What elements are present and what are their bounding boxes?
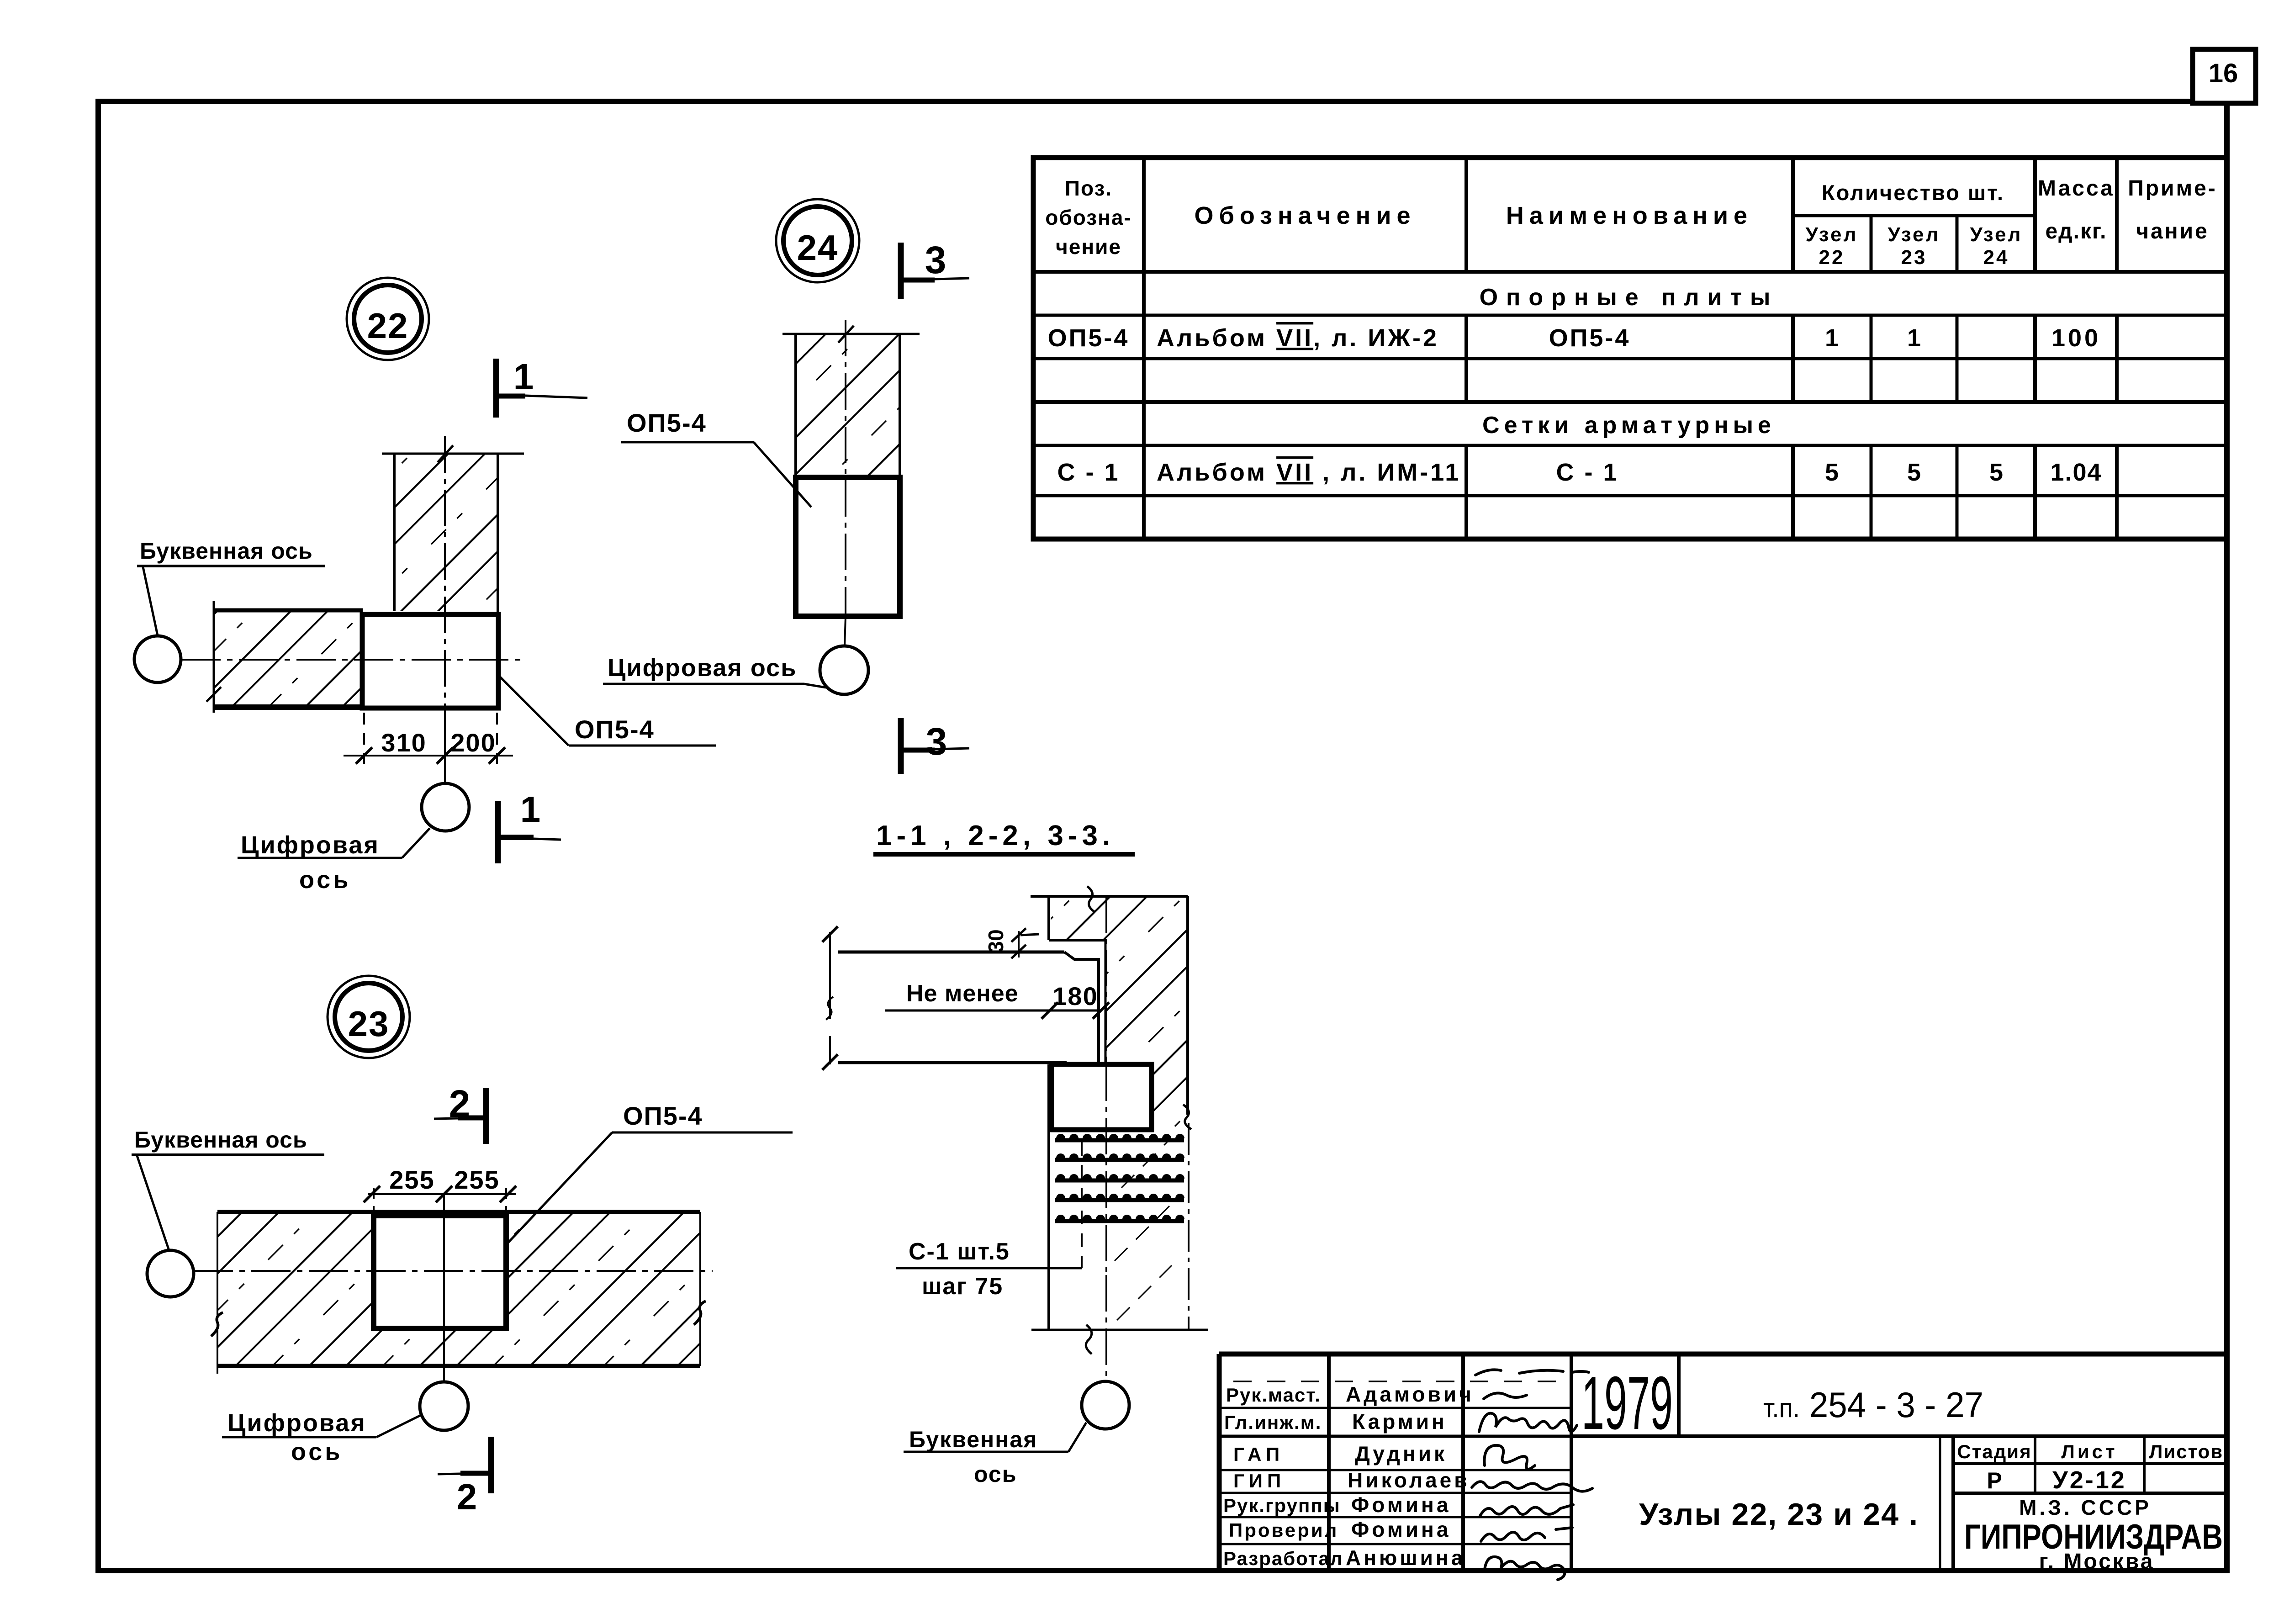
row С-1 (1057, 459, 2102, 486)
svg-text:Не менее: Не менее (906, 980, 1019, 1007)
svg-text:16: 16 (2209, 58, 2238, 88)
letter axis line (dash-dot) (181, 659, 525, 661)
svg-text:Обозначение: Обозначение (1194, 202, 1416, 229)
svg-text:1979: 1979 (1581, 1361, 1673, 1445)
svg-text:2: 2 (457, 1476, 477, 1517)
svg-text:Буквенная: Буквенная (909, 1427, 1037, 1452)
svg-text:Сетки арматурные: Сетки арматурные (1482, 412, 1776, 439)
svg-text:Опорные плиты: Опорные плиты (1480, 284, 1779, 311)
svg-text:Рук.маст.: Рук.маст. (1226, 1384, 1321, 1406)
digit axis circle node 24 (820, 646, 868, 694)
dimension 310 / 200 node 22 (344, 713, 513, 764)
mesh extent line (dashed) (1081, 1142, 1083, 1268)
personnel names (1346, 1382, 1474, 1570)
section mark 2 (bottom) (438, 1437, 491, 1517)
label Буквенная ось (section) (904, 1423, 1086, 1487)
svg-text:ось: ось (974, 1461, 1017, 1487)
svg-text:Узел: Узел (1888, 223, 1940, 246)
svg-text:180: 180 (1052, 982, 1098, 1010)
svg-text:М.З. СССР: М.З. СССР (2019, 1496, 2152, 1519)
label ОП5-4 with leader node 22 (498, 675, 716, 746)
svg-text:Николаев: Николаев (1348, 1468, 1470, 1492)
svg-text:310: 310 (381, 728, 426, 757)
section mark 1 (top) (496, 356, 587, 418)
svg-text:Масса: Масса (2038, 176, 2115, 201)
digit axis line node 23 (443, 1194, 445, 1382)
svg-text:шаг 75: шаг 75 (922, 1273, 1003, 1300)
svg-text:ось: ось (299, 866, 351, 894)
svg-text:5: 5 (1989, 459, 2003, 486)
svg-text:Поз.: Поз. (1065, 176, 1112, 200)
svg-text:Узлы 22, 23 и 24 .: Узлы 22, 23 и 24 . (1639, 1497, 1918, 1532)
signatures (handwritten scribbles) (1472, 1370, 1592, 1580)
svg-text:Анюшина: Анюшина (1346, 1546, 1465, 1570)
section mark 2 (top) (434, 1082, 486, 1144)
svg-text:ось: ось (291, 1438, 343, 1465)
svg-text:Фомина: Фомина (1351, 1493, 1451, 1517)
row ОП5-4 (1048, 324, 2101, 352)
svg-text:У2-12: У2-12 (2052, 1466, 2126, 1494)
svg-text:Узел: Узел (1806, 223, 1858, 246)
letter axis circle (section) (1082, 1381, 1129, 1429)
svg-text:1: 1 (520, 789, 541, 830)
sheet number box 16 (2193, 49, 2256, 103)
letter axis line node 23 (194, 1270, 713, 1272)
letter axis circle node 22 (134, 636, 181, 682)
svg-text:3: 3 (926, 720, 947, 763)
label Буквенная ось node 23 (132, 1127, 324, 1252)
svg-text:Рук.группы: Рук.группы (1223, 1495, 1341, 1516)
svg-text:Гл.инж.м.: Гл.инж.м. (1224, 1412, 1322, 1433)
svg-text:Р: Р (1987, 1468, 2002, 1493)
section mark 1 (bottom) (498, 789, 561, 863)
label Цифровая ось node 24 (603, 654, 826, 688)
digit axis line node 24 (845, 320, 846, 646)
label Цифровая ось node 22 (238, 828, 430, 894)
section mark 3 (top) (901, 238, 969, 299)
wall section (hatched column) node 24 (782, 326, 920, 478)
svg-text:22: 22 (1819, 246, 1845, 269)
svg-text:ОП5-4: ОП5-4 (623, 1101, 703, 1130)
svg-text:ед.кг.: ед.кг. (2045, 219, 2107, 243)
svg-text:ОП5-4: ОП5-4 (1549, 324, 1631, 352)
section title 1-1, 2-2, 3-3 (873, 820, 1135, 854)
organization (1964, 1496, 2223, 1574)
bearing plate ОП5-4 node 24 (796, 477, 900, 616)
digit axis circle node 23 (420, 1382, 468, 1430)
svg-text:100: 100 (2051, 324, 2101, 352)
dimension 30 (vertical gap) (984, 928, 1039, 958)
svg-text:1.04: 1.04 (2050, 459, 2102, 486)
label С-1 шт.5 шаг 75 (896, 1238, 1082, 1300)
svg-text:Листов: Листов (2149, 1441, 2223, 1462)
svg-text:ГИП: ГИП (1233, 1470, 1285, 1492)
left dimension line of slab (822, 926, 838, 1070)
label ОП5-4 with leader node 24 (621, 408, 811, 507)
node 22 marker circle (347, 278, 429, 360)
svg-text:Фомина: Фомина (1351, 1518, 1451, 1541)
dimension 255 / 255 node 23 (364, 1165, 516, 1215)
svg-text:255: 255 (389, 1165, 434, 1194)
svg-text:255: 255 (454, 1165, 499, 1194)
svg-text:Буквенная ось: Буквенная ось (134, 1127, 307, 1153)
stage/sheet header (1957, 1441, 2223, 1494)
svg-text:2: 2 (449, 1082, 471, 1125)
svg-text:5: 5 (1825, 459, 1839, 486)
reinforcement mesh C-1 (5 rows) (1055, 1134, 1184, 1221)
svg-text:Проверил: Проверил (1229, 1519, 1338, 1541)
svg-text:С - 1: С - 1 (1057, 459, 1120, 486)
bearing plate ОП5-4 node 23 (374, 1216, 506, 1328)
svg-text:3: 3 (925, 238, 946, 281)
svg-text:Дудник: Дудник (1355, 1442, 1447, 1465)
svg-text:Буквенная ось: Буквенная ось (140, 538, 313, 564)
node 23 marker circle (328, 976, 410, 1058)
digit axis circle node 22 (422, 783, 469, 831)
svg-text:С - 1: С - 1 (1556, 459, 1618, 486)
svg-text:1: 1 (1825, 324, 1839, 352)
dimension Не менее 180 (885, 980, 1109, 1019)
svg-text:1: 1 (513, 356, 534, 397)
svg-text:ОП5-4: ОП5-4 (575, 715, 655, 744)
floor slab section (hatched band) node 23 (211, 1212, 706, 1374)
svg-text:ОП5-4: ОП5-4 (627, 408, 707, 437)
svg-text:1: 1 (1907, 324, 1921, 352)
svg-text:Стадия: Стадия (1957, 1441, 2031, 1462)
floor slab (beam) in section (838, 952, 1099, 1063)
label ОП5-4 with leader node 23 (504, 1101, 793, 1247)
svg-text:Узел: Узел (1970, 223, 2023, 246)
svg-text:22: 22 (367, 306, 409, 346)
svg-text:5: 5 (1907, 459, 1921, 486)
svg-text:Приме-: Приме- (2128, 176, 2217, 201)
letter axis circle node 23 (147, 1250, 194, 1297)
svg-text:24: 24 (1983, 246, 2009, 269)
svg-text:23: 23 (348, 1004, 390, 1044)
svg-text:С-1 шт.5: С-1 шт.5 (909, 1238, 1010, 1265)
wall hatched areas (1051, 896, 1188, 1320)
floor slab section (hatched band) node 22 (206, 601, 500, 713)
svg-text:Лист: Лист (2061, 1441, 2117, 1462)
svg-text:Цифровая ось: Цифровая ось (608, 654, 797, 682)
svg-text:Кармин: Кармин (1352, 1410, 1447, 1434)
svg-text:Цифровая: Цифровая (227, 1409, 366, 1437)
svg-text:24: 24 (797, 227, 839, 268)
svg-text:1-1 , 2-2, 3-3.: 1-1 , 2-2, 3-3. (876, 820, 1115, 852)
svg-text:30: 30 (984, 929, 1008, 952)
svg-text:Альбом VII, л. ИЖ-2: Альбом VII, л. ИЖ-2 (1157, 324, 1439, 352)
bearing plate ОП5-4 node 22 (362, 614, 498, 708)
svg-text:200: 200 (450, 728, 496, 757)
label Цифровая ось node 23 (222, 1409, 421, 1465)
svg-text:чение: чение (1056, 235, 1121, 259)
specification table grid (1033, 158, 2227, 539)
wall section (hatched column) node 22 (382, 445, 524, 614)
section mark 3 (bottom) (901, 718, 969, 774)
svg-text:Разработал: Разработал (1223, 1548, 1343, 1569)
svg-text:ГАП: ГАП (1233, 1444, 1284, 1465)
bearing plate in section (1052, 1064, 1152, 1130)
svg-text:Количество шт.: Количество шт. (1822, 180, 2004, 205)
node 24 marker circle (776, 199, 859, 282)
svg-text:23: 23 (1901, 246, 1927, 269)
digit axis line (dash-dot vertical) (444, 436, 446, 783)
svg-text:Адамович: Адамович (1346, 1382, 1474, 1406)
wall outline (1031, 886, 1208, 1354)
svg-text:Цифровая: Цифровая (241, 831, 380, 859)
personnel roles (1223, 1384, 1343, 1569)
svg-text:Наименование: Наименование (1506, 202, 1753, 229)
svg-text:ОП5-4: ОП5-4 (1048, 324, 1130, 352)
table header texts (1045, 176, 2217, 269)
title block grid (1219, 1354, 2227, 1571)
label Буквенная ось node 22 (137, 538, 325, 635)
svg-text:обозна-: обозна- (1045, 206, 1132, 229)
wall centre axis (dash-dot) (1105, 896, 1107, 1381)
svg-text:Альбом VII , л. ИМ-11: Альбом VII , л. ИМ-11 (1157, 459, 1461, 486)
svg-text:г. Москва: г. Москва (2039, 1550, 2155, 1574)
svg-text:чание: чание (2136, 219, 2209, 243)
